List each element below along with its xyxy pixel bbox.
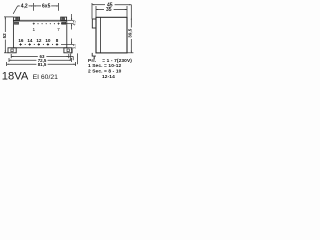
left overall height dimension <box>4 17 13 53</box>
left mounting foot <box>8 48 16 53</box>
side view left tab <box>92 19 96 28</box>
svg-text:4,5: 4,5 <box>73 21 77 26</box>
svg-text:7: 7 <box>57 27 60 32</box>
side view bottom foot <box>92 53 96 56</box>
top-right mounting tab <box>61 17 67 20</box>
right mounting foot <box>64 48 72 53</box>
side view body <box>96 17 127 53</box>
svg-text:8: 8 <box>56 38 59 43</box>
top-right clamp blob <box>62 22 66 24</box>
svg-text:81,5: 81,5 <box>38 62 47 67</box>
svg-text:18VA: 18VA <box>2 71 29 83</box>
right small dimension 4,5 (top edge to pin row) <box>61 14 74 30</box>
svg-text:14: 14 <box>27 38 33 43</box>
svg-text:1: 1 <box>32 27 35 32</box>
top-left clamp blob <box>14 22 18 24</box>
svg-text:35: 35 <box>106 7 112 13</box>
svg-text:3,5: 3,5 <box>73 44 77 49</box>
svg-text:16: 16 <box>18 38 24 43</box>
dimension 6x5 over top pins <box>34 3 59 11</box>
bottom pin number labels <box>18 38 58 43</box>
top-left mounting tab <box>14 17 20 20</box>
svg-text:12: 12 <box>36 38 42 43</box>
side dimension 35 <box>96 6 127 17</box>
right small dimension 3,5 (pin row to bottom edge) <box>61 39 74 54</box>
body inner top line <box>13 21 66 23</box>
top-left tab slot <box>16 18 19 20</box>
svg-text:1 Sec. = 10-12: 1 Sec. = 10-12 <box>88 63 121 69</box>
side view clamp strip <box>100 17 102 53</box>
bottom dimension 72,5 <box>9 58 71 62</box>
side view solder pin <box>93 56 95 59</box>
svg-text:10: 10 <box>45 38 51 43</box>
right foot slot <box>67 49 69 52</box>
svg-text:4,2: 4,2 <box>21 4 28 10</box>
side height dimension 39,5 <box>127 5 133 53</box>
top-right tab slot <box>62 18 65 20</box>
svg-text:39,5: 39,5 <box>128 28 133 37</box>
bottom dimension 81,5 <box>7 53 78 66</box>
top pin row pins 1-7 <box>33 23 60 25</box>
side dimension 45 <box>92 3 131 19</box>
svg-text:Pri.: Pri. <box>88 58 96 64</box>
bottom dimension 63 <box>11 54 69 58</box>
svg-text:EI 60/21: EI 60/21 <box>33 74 59 81</box>
svg-text:12-14: 12-14 <box>102 74 115 80</box>
left foot slot <box>11 49 13 52</box>
svg-text:2 Sec. = 8 - 10: 2 Sec. = 8 - 10 <box>88 69 122 75</box>
svg-text:6x5: 6x5 <box>42 4 51 10</box>
svg-text:52: 52 <box>2 33 7 39</box>
svg-text:= 1 - 7(230V): = 1 - 7(230V) <box>102 58 132 64</box>
dimension 4,2 leader <box>13 6 33 14</box>
bottom pin row pins 16..8 <box>19 43 58 45</box>
transformer footprint body <box>13 20 66 48</box>
winding connection table <box>88 58 132 80</box>
